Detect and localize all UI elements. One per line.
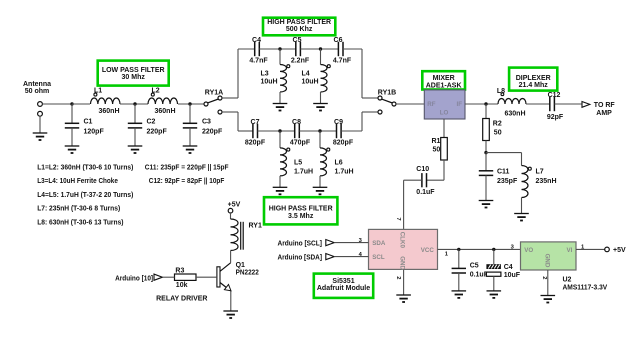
svg-text:L7: L7 <box>536 169 544 176</box>
svg-text:IF: IF <box>457 101 463 108</box>
inductor L4 10uH <box>302 49 331 104</box>
resistor R2 50 <box>483 104 502 153</box>
svg-text:820pF: 820pF <box>333 140 354 147</box>
svg-text:L8: 630nH (T-30-6 13 Turns): L8: 630nH (T-30-6 13 Turns) <box>37 218 124 227</box>
svg-text:92pF: 92pF <box>547 114 564 121</box>
capacitor C5 2.2nF <box>291 37 310 65</box>
label DIPLEXER 21.4 Mhz <box>509 68 557 91</box>
svg-text:+5V: +5V <box>228 201 241 208</box>
output arrow TO RF AMP <box>582 102 615 117</box>
capacitor C10 0.1uF <box>416 166 444 196</box>
svg-text:C2: C2 <box>147 119 156 126</box>
svg-text:L3=L4: 10uH Ferrite Choke: L3=L4: 10uH Ferrite Choke <box>37 176 118 185</box>
svg-text:120pF: 120pF <box>84 129 105 136</box>
capacitor C12 92pF <box>547 92 564 121</box>
svg-text:L7: 235nH (T-30-6 8 Turns): L7: 235nH (T-30-6 8 Turns) <box>37 204 121 213</box>
node L5 junction <box>278 129 281 132</box>
ground C4 <box>487 291 502 298</box>
ground L6 <box>313 187 328 194</box>
svg-text:R2: R2 <box>493 121 502 128</box>
wire C12 to output arrow <box>554 103 582 105</box>
regulator U2 AMS1117-3.3V body <box>521 242 577 270</box>
svg-text:4.7nF: 4.7nF <box>333 58 352 65</box>
svg-text:50: 50 <box>494 129 502 136</box>
inductor L8 630nH <box>497 88 526 118</box>
relay coil RY1 <box>231 219 262 251</box>
capacitor C2 220pF <box>128 104 168 146</box>
switch RY1A pole <box>204 90 223 106</box>
svg-text:Q1: Q1 <box>236 262 245 269</box>
svg-text:220pF: 220pF <box>147 129 168 136</box>
svg-text:L4: L4 <box>302 70 310 77</box>
label LOW PASS FILTER 30 Mhz <box>98 61 169 86</box>
svg-text:GND: GND <box>543 254 550 268</box>
capacitor C11 235pF <box>479 153 518 201</box>
ground C5 <box>452 291 467 298</box>
input Arduino [SDA] <box>278 252 369 261</box>
wire L8 to C12 <box>526 103 550 105</box>
svg-text:VCC: VCC <box>421 247 435 254</box>
svg-text:4.7nF: 4.7nF <box>249 58 268 65</box>
wire mixer IF to diplexer node <box>465 103 498 105</box>
wire antenna to C1 node <box>42 103 72 105</box>
svg-text:AMP: AMP <box>596 110 612 117</box>
antenna J1 50 ohm connector <box>23 81 51 133</box>
svg-text:10uH: 10uH <box>261 78 278 85</box>
svg-text:SCL: SCL <box>372 254 385 261</box>
ground Q1 emitter <box>223 311 238 318</box>
svg-text:C8: C8 <box>292 119 301 126</box>
Si5351 module U3 body <box>369 229 438 270</box>
transistor Q1 PN2222 <box>217 262 259 311</box>
switch RY1A throw 1 (to 500KHz HPF) <box>218 49 238 100</box>
svg-text:VO: VO <box>524 247 533 254</box>
ground C3 <box>183 146 198 153</box>
svg-text:0.1uF: 0.1uF <box>416 189 435 196</box>
node C1 junction <box>70 102 73 105</box>
svg-text:TO RF: TO RF <box>594 102 616 109</box>
ground C2 <box>128 146 143 153</box>
svg-text:HIGH PASS FILTER: HIGH PASS FILTER <box>267 19 331 26</box>
resistor R3 10k <box>175 268 217 289</box>
switch RY1B pole <box>378 90 396 106</box>
svg-text:C11: 235pF = 220pF || 15pF: C11: 235pF = 220pF || 15pF <box>145 162 229 171</box>
switch RY1B throw 2 <box>378 110 382 114</box>
svg-text:Adafruit Module: Adafruit Module <box>317 285 370 292</box>
svg-text:+5V: +5V <box>613 247 626 254</box>
svg-text:360nH: 360nH <box>98 108 119 115</box>
svg-text:C1: C1 <box>84 119 93 126</box>
svg-text:Arduino [SDA]: Arduino [SDA] <box>278 254 323 261</box>
node C2 junction <box>133 102 136 105</box>
resistor R1 50 (LO termination) <box>432 119 448 180</box>
wire into C4 <box>238 48 255 50</box>
svg-text:Si5351: Si5351 <box>332 278 354 285</box>
svg-text:630nH: 630nH <box>504 110 525 117</box>
svg-text:220pF: 220pF <box>202 129 223 136</box>
svg-text:GND: GND <box>399 256 406 270</box>
switch RY1B throw 1 <box>378 96 382 100</box>
svg-text:235pF: 235pF <box>497 178 518 185</box>
svg-text:LOW PASS FILTER: LOW PASS FILTER <box>102 67 165 74</box>
svg-text:L1: L1 <box>94 88 102 95</box>
label MIXER ADE1-ASK <box>422 71 465 89</box>
notes column 2 <box>145 162 229 185</box>
svg-text:L3: L3 <box>261 70 269 77</box>
svg-text:MIXER: MIXER <box>433 75 455 82</box>
svg-text:10uH: 10uH <box>302 78 319 85</box>
svg-text:PN2222: PN2222 <box>236 270 259 277</box>
capacitor C7 820pF <box>245 119 266 147</box>
capacitor C5 0.1uF <box>452 249 489 291</box>
node C3 junction <box>188 102 191 105</box>
svg-text:L5: L5 <box>294 160 302 167</box>
svg-text:C12: 92pF = 82pF || 10pF: C12: 92pF = 82pF || 10pF <box>149 176 225 185</box>
svg-text:C6: C6 <box>334 37 343 44</box>
svg-text:235nH: 235nH <box>536 178 557 185</box>
svg-text:SDA: SDA <box>372 240 386 247</box>
svg-text:3.5 Mhz: 3.5 Mhz <box>288 213 314 220</box>
wire R2 to L7 <box>486 153 522 166</box>
ground C1 <box>65 146 80 153</box>
wire into C7 <box>238 130 253 132</box>
inductor L7 235nH <box>522 166 557 214</box>
wire C7 to C8 <box>258 130 295 132</box>
node L4 junction <box>319 47 322 50</box>
node IF junction <box>484 102 487 105</box>
svg-text:VI: VI <box>566 247 572 254</box>
ground L7 <box>514 214 529 221</box>
capacitor C4 10uF electrolytic <box>486 249 520 291</box>
svg-text:C4: C4 <box>504 264 513 271</box>
svg-text:C4: C4 <box>252 37 261 44</box>
node L6 junction <box>318 129 321 132</box>
svg-text:360nH: 360nH <box>154 108 175 115</box>
label HIGH PASS FILTER 3.5 Mhz <box>264 197 337 224</box>
svg-text:50: 50 <box>433 147 441 154</box>
wire L2 to C3 node <box>178 103 204 105</box>
label Si5351 Adafruit Module <box>314 274 373 298</box>
svg-text:C11: C11 <box>497 169 510 176</box>
ground L5 <box>273 187 288 194</box>
wire Si5351 GND to ground <box>403 269 405 295</box>
svg-text:C5: C5 <box>470 262 479 269</box>
svg-text:L1=L2: 360nH (T30-6 10 Turns): L1=L2: 360nH (T30-6 10 Turns) <box>37 162 134 171</box>
inductor L6 1.7uH <box>320 131 354 187</box>
svg-text:R3: R3 <box>175 268 184 275</box>
svg-text:L2: L2 <box>152 88 160 95</box>
svg-text:C5: C5 <box>293 37 302 44</box>
capacitor C9 820pF <box>333 119 354 147</box>
svg-text:2: 2 <box>541 276 547 279</box>
wire C4 to C5 <box>259 48 296 50</box>
svg-text:470pF: 470pF <box>290 140 311 147</box>
capacitor C8 470pF <box>290 119 311 147</box>
svg-text:30 Mhz: 30 Mhz <box>122 74 146 81</box>
svg-text:C3: C3 <box>202 119 211 126</box>
svg-text:Arduino [SCL]: Arduino [SCL] <box>278 240 323 247</box>
inductor L3 10uH <box>261 49 290 104</box>
svg-text:C9: C9 <box>334 119 343 126</box>
+5V supply relay <box>228 201 241 219</box>
svg-text:RY1: RY1 <box>249 222 262 229</box>
svg-text:2.2nF: 2.2nF <box>291 58 310 65</box>
capacitor C3 220pF <box>183 104 223 146</box>
svg-text:RF: RF <box>427 101 435 108</box>
wire VCC to U2 VO <box>438 249 521 257</box>
wire C9 to RY1B throw 2 <box>341 112 378 131</box>
notes column 1 <box>37 162 134 226</box>
+5V input terminal <box>605 247 626 254</box>
wire RY1B pole to mixer RF <box>396 103 424 105</box>
svg-text:L4=L5: 1.7uH (T-37-2 20 Turns): L4=L5: 1.7uH (T-37-2 20 Turns) <box>37 190 134 199</box>
svg-text:CLK0: CLK0 <box>399 232 406 249</box>
ground C11 <box>479 201 494 208</box>
svg-text:R1: R1 <box>432 138 441 145</box>
svg-text:RELAY DRIVER: RELAY DRIVER <box>156 295 207 302</box>
inductor L5 1.7uH <box>280 131 313 187</box>
ground Si5351 <box>396 295 411 302</box>
svg-text:7: 7 <box>395 217 401 220</box>
capacitor C6 4.7nF <box>333 37 352 65</box>
ground U2 <box>541 296 556 303</box>
svg-text:50 ohm: 50 ohm <box>25 88 50 95</box>
svg-text:820pF: 820pF <box>245 140 266 147</box>
svg-text:Arduino [10]: Arduino [10] <box>115 275 153 282</box>
ground L3 <box>273 104 288 111</box>
wire coil to Q1 collector <box>220 251 231 272</box>
ground antenna <box>33 133 48 140</box>
svg-text:C10: C10 <box>416 166 429 173</box>
U2 reference text <box>563 276 608 291</box>
svg-text:LO: LO <box>440 110 449 117</box>
inductor L2 360nH <box>148 88 178 116</box>
ground L4 <box>313 104 328 111</box>
svg-text:L8: L8 <box>497 88 505 95</box>
svg-text:500 Khz: 500 Khz <box>286 26 313 33</box>
switch RY1A throw 2 (to 3.5MHz HPF) <box>218 110 238 131</box>
wire C8 to C9 <box>299 130 336 132</box>
svg-text:10uF: 10uF <box>504 272 521 279</box>
inductor L1 360nH <box>91 88 121 116</box>
wire VI to +5V input <box>576 248 605 250</box>
svg-text:AMS1117-3.3V: AMS1117-3.3V <box>563 285 608 292</box>
node C5 junction <box>457 248 460 251</box>
input Arduino [SCL] <box>278 238 369 248</box>
svg-text:1.7uH: 1.7uH <box>294 169 313 176</box>
wire C5 to C6 <box>300 48 338 50</box>
svg-text:U2: U2 <box>563 276 572 283</box>
node L3 junction <box>278 47 281 50</box>
node R2 bottom junction <box>484 151 487 154</box>
label HIGH PASS FILTER 500 Khz <box>263 18 335 36</box>
svg-text:2: 2 <box>395 276 401 279</box>
svg-text:HIGH PASS FILTER: HIGH PASS FILTER <box>269 206 333 213</box>
svg-text:C7: C7 <box>251 119 260 126</box>
svg-text:ADE1-ASK: ADE1-ASK <box>426 82 462 89</box>
svg-text:21.4 Mhz: 21.4 Mhz <box>519 82 549 89</box>
capacitor C1 120pF <box>65 104 105 146</box>
svg-text:10k: 10k <box>176 282 188 289</box>
wire L1 to C2 node <box>120 103 148 105</box>
svg-text:DIPLEXER: DIPLEXER <box>516 75 551 82</box>
svg-text:Antenna: Antenna <box>23 81 51 88</box>
svg-text:C12: C12 <box>548 92 561 99</box>
wire C1 to L1 <box>72 103 90 105</box>
wire C10 to Si5351 CLK0 <box>404 180 422 229</box>
wire C6 to RY1B throw 1 <box>343 49 378 98</box>
svg-text:RY1B: RY1B <box>378 90 396 97</box>
svg-text:1.7uH: 1.7uH <box>335 169 354 176</box>
node C4 junction <box>492 248 495 251</box>
capacitor C4 4.7nF <box>249 37 268 65</box>
mixer U1 ADE1-ASK body <box>424 90 465 119</box>
wire U2 GND to ground <box>547 270 549 296</box>
svg-text:L6: L6 <box>335 160 343 167</box>
input Arduino [10] <box>115 274 174 282</box>
